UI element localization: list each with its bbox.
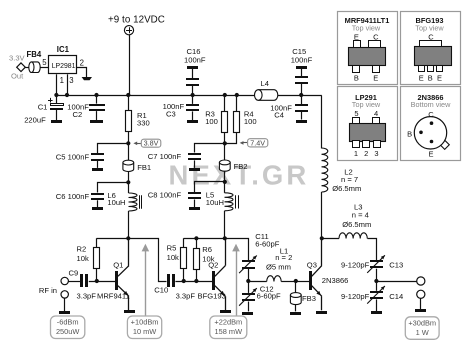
svg-text:-6dBm: -6dBm [57, 318, 79, 327]
svg-text:100: 100 [205, 117, 218, 126]
svg-text:C7 100nF: C7 100nF [148, 152, 182, 161]
svg-text:E: E [419, 74, 424, 83]
svg-text:+9 to 12VDC: +9 to 12VDC [108, 14, 165, 25]
svg-text:Ø5 mm: Ø5 mm [266, 263, 291, 272]
svg-text:n = 7: n = 7 [341, 175, 358, 184]
svg-text:6-60pF: 6-60pF [257, 292, 281, 301]
svg-text:Bottom view: Bottom view [411, 100, 451, 109]
svg-text:4: 4 [374, 109, 378, 118]
svg-text:C1: C1 [38, 103, 48, 112]
svg-text:158 mW: 158 mW [215, 327, 243, 336]
svg-text:MRF9411: MRF9411 [97, 291, 130, 300]
svg-text:n = 4: n = 4 [352, 210, 369, 219]
svg-text:C: C [373, 32, 379, 41]
svg-text:10uH: 10uH [107, 198, 125, 207]
svg-text:3.3pF: 3.3pF [77, 291, 97, 300]
svg-text:C9: C9 [69, 269, 79, 278]
svg-text:6-60pF: 6-60pF [255, 239, 279, 248]
svg-text:FB3: FB3 [302, 294, 316, 303]
svg-text:3: 3 [69, 76, 73, 85]
svg-text:R2: R2 [77, 244, 87, 253]
svg-text:3: 3 [374, 149, 378, 158]
svg-text:+10dBm: +10dBm [131, 318, 159, 327]
svg-text:3.3V: 3.3V [9, 53, 26, 62]
svg-text:E: E [428, 150, 433, 159]
svg-text:10k: 10k [167, 253, 179, 262]
svg-text:2: 2 [364, 149, 368, 158]
svg-text:Out: Out [11, 71, 24, 80]
svg-text:LP2981: LP2981 [52, 63, 76, 70]
svg-text:FB2: FB2 [234, 162, 248, 171]
svg-text:RF in: RF in [39, 286, 57, 295]
svg-text:C: C [428, 32, 434, 41]
svg-text:100: 100 [244, 117, 257, 126]
svg-text:1: 1 [60, 76, 64, 85]
svg-text:C13: C13 [389, 261, 403, 270]
svg-text:5: 5 [354, 109, 358, 118]
svg-text:1 W: 1 W [416, 328, 429, 337]
svg-text:5: 5 [42, 58, 47, 67]
svg-text:250uW: 250uW [56, 327, 79, 336]
svg-text:FB4: FB4 [27, 50, 42, 59]
svg-text:220uF: 220uF [24, 115, 46, 124]
svg-text:L4: L4 [261, 79, 269, 88]
svg-text:7.4V: 7.4V [250, 138, 265, 147]
svg-text:BFG193: BFG193 [198, 291, 226, 300]
svg-text:n = 2: n = 2 [275, 253, 292, 262]
svg-text:C5 100nF: C5 100nF [56, 152, 90, 161]
svg-text:Q2: Q2 [208, 261, 218, 270]
svg-text:+22dBm: +22dBm [214, 318, 242, 327]
svg-text:C10: C10 [154, 286, 168, 295]
svg-text:C2: C2 [73, 110, 83, 119]
svg-text:3.8V: 3.8V [144, 139, 159, 148]
svg-text:Top view: Top view [352, 24, 381, 33]
svg-text:Q3: Q3 [307, 261, 317, 270]
svg-text:10 mW: 10 mW [133, 327, 156, 336]
svg-text:2: 2 [80, 58, 84, 67]
svg-text:1: 1 [354, 149, 358, 158]
svg-text:2N3866: 2N3866 [322, 276, 349, 285]
svg-text:E: E [373, 74, 378, 83]
svg-text:10k: 10k [77, 254, 89, 263]
svg-text:Q1: Q1 [113, 261, 123, 270]
svg-text:C: C [428, 110, 434, 119]
svg-text:C14: C14 [389, 292, 403, 301]
svg-text:10uH: 10uH [206, 198, 224, 207]
svg-text:Ø6.5mm: Ø6.5mm [342, 220, 371, 229]
svg-text:C8 100nF: C8 100nF [148, 191, 182, 200]
svg-text:R5: R5 [167, 244, 177, 253]
svg-text:E: E [437, 74, 442, 83]
svg-text:100nF: 100nF [184, 55, 206, 64]
svg-text:Top view: Top view [352, 100, 381, 109]
svg-text:C3: C3 [166, 109, 176, 118]
svg-text:B: B [428, 74, 433, 83]
svg-text:Ø6.5mm: Ø6.5mm [332, 184, 361, 193]
svg-text:3.3pF: 3.3pF [176, 291, 196, 300]
svg-text:E: E [354, 32, 359, 41]
svg-text:B: B [407, 129, 412, 138]
svg-text:330: 330 [137, 118, 150, 127]
svg-text:9-120pF: 9-120pF [341, 261, 370, 270]
svg-text:9-120pF: 9-120pF [341, 292, 370, 301]
svg-text:+30dBm: +30dBm [408, 318, 436, 327]
svg-text:IC1: IC1 [57, 45, 70, 54]
svg-text:B: B [354, 74, 359, 83]
svg-text:Top view: Top view [415, 24, 444, 33]
svg-text:R6: R6 [202, 245, 212, 254]
svg-text:FB1: FB1 [137, 163, 151, 172]
svg-text:C6 100nF: C6 100nF [56, 192, 90, 201]
svg-text:C4: C4 [274, 111, 284, 120]
svg-text:100nF: 100nF [291, 55, 313, 64]
